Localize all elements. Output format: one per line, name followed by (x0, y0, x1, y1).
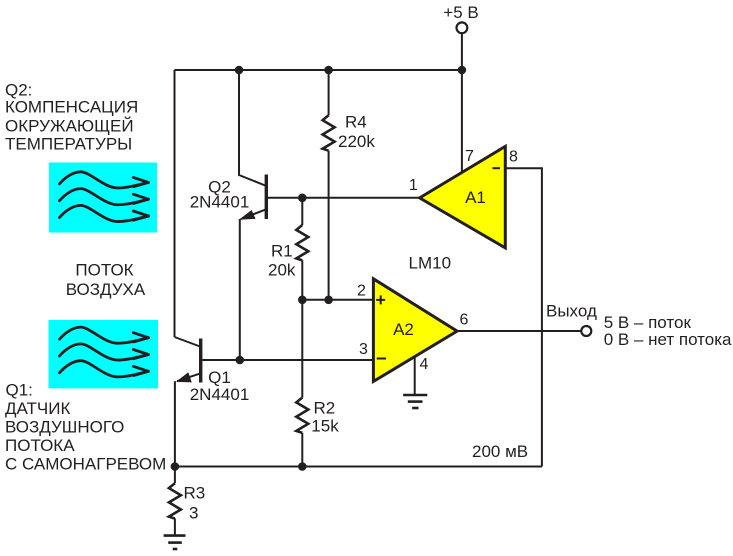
svg-text:Q1: Q1 (208, 368, 231, 387)
svg-text:ДАТЧИК: ДАТЧИК (5, 399, 70, 418)
svg-text:220k: 220k (338, 132, 375, 151)
svg-text:R4: R4 (345, 113, 367, 132)
svg-text:ПОТОК: ПОТОК (75, 261, 133, 280)
svg-text:3: 3 (359, 341, 368, 358)
svg-text:7: 7 (465, 148, 474, 165)
svg-text:4: 4 (420, 356, 429, 373)
svg-text:20k: 20k (268, 261, 296, 280)
svg-text:200 мВ: 200 мВ (472, 442, 528, 461)
svg-text:A2: A2 (393, 320, 414, 339)
svg-text:ОКРУЖАЮЩЕЙ: ОКРУЖАЮЩЕЙ (5, 116, 134, 135)
svg-text:ВОЗДУХА: ВОЗДУХА (66, 280, 146, 299)
svg-text:R1: R1 (271, 242, 293, 261)
svg-text:R2: R2 (314, 399, 336, 418)
svg-text:LM10: LM10 (409, 254, 452, 273)
svg-text:ПОТОКА: ПОТОКА (5, 436, 75, 455)
svg-text:+5 В: +5 В (443, 3, 478, 22)
svg-text:ТЕМПЕРАТУРЫ: ТЕМПЕРАТУРЫ (5, 134, 132, 153)
svg-text:2: 2 (357, 283, 366, 300)
svg-text:1: 1 (409, 177, 418, 194)
svg-text:Выход: Выход (546, 301, 597, 320)
svg-text:6: 6 (460, 312, 469, 329)
svg-text:Q1:: Q1: (6, 381, 33, 400)
svg-text:R3: R3 (184, 483, 206, 502)
svg-text:15k: 15k (311, 416, 339, 435)
svg-text:ВОЗДУШНОГО: ВОЗДУШНОГО (5, 417, 124, 436)
svg-text:3: 3 (189, 503, 198, 522)
svg-text:С САМОНАГРЕВОМ: С САМОНАГРЕВОМ (5, 454, 166, 473)
svg-text:8: 8 (509, 149, 518, 166)
svg-text:2N4401: 2N4401 (190, 193, 250, 212)
svg-text:КОМПЕНСАЦИЯ: КОМПЕНСАЦИЯ (5, 97, 138, 116)
svg-text:A1: A1 (465, 188, 486, 207)
svg-text:2N4401: 2N4401 (190, 385, 250, 404)
svg-text:0 В – нет потока: 0 В – нет потока (604, 330, 732, 349)
